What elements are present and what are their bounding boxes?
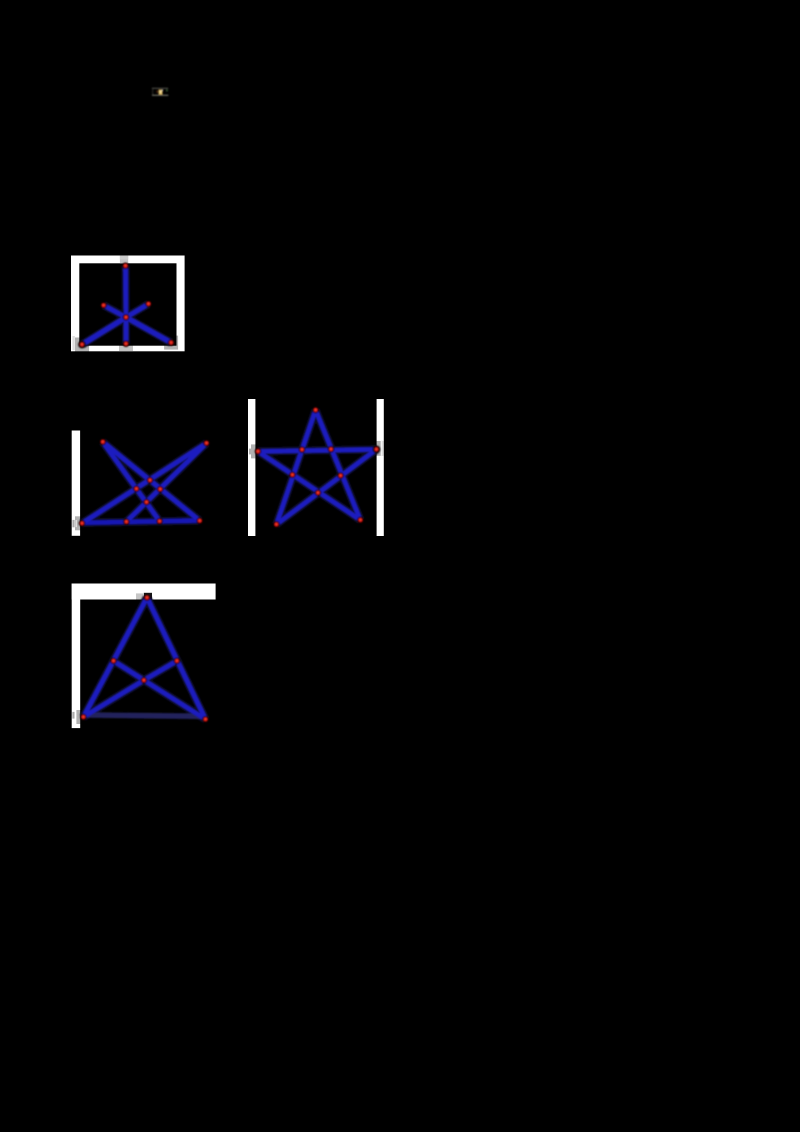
fig3 white column inside right strip: [381, 440, 383, 455]
figure 1: star graph with 6 spokes: [71, 256, 185, 352]
fig1 edge center-top: [123, 266, 128, 317]
fig3 edge left-bottomright: [258, 451, 360, 520]
fig4 edge top-bottomright: [147, 598, 206, 720]
fig1 edge center-upperleft: [104, 305, 126, 317]
fig2 node lower-center: [144, 500, 149, 505]
fig3 white left strip: [248, 399, 255, 536]
fig3 node halo right: [369, 441, 383, 456]
fig1 edge center-bottomleft: [82, 317, 126, 344]
fig4 node mid-left: [111, 658, 116, 663]
fig4 node top: [144, 595, 149, 600]
fig3 edge halo underlay: [258, 410, 376, 524]
fig2 edge topleft-bottommidright: [103, 442, 160, 521]
fig1 node bottom-left: [79, 342, 84, 347]
fig1 node halo bottom-left: [75, 338, 89, 352]
fig1 node bottom-center: [123, 341, 128, 346]
fig1 node upper-left: [101, 303, 106, 308]
fig3 node inner-midleft: [290, 472, 295, 477]
fig1 node upper-right: [146, 301, 151, 306]
fig2 edge halo underlay: [82, 442, 207, 523]
fig4 node bottom-right: [203, 717, 208, 722]
fig3 node left: [255, 449, 260, 454]
fig2 white left strip: [72, 431, 80, 536]
fig1 node halo bottom-center: [119, 337, 133, 351]
fig1 black interior: [79, 263, 176, 345]
fig1 gray stripe on left border near corner: [72, 336, 74, 350]
fig4 edge center-bottomright: [144, 680, 206, 719]
fig3 gray dash extension near left node: [249, 449, 251, 455]
fig4 node center: [141, 678, 146, 683]
fig2 node mid-right: [158, 487, 163, 492]
fig4 white left strip: [72, 584, 81, 729]
fig1 node top: [123, 263, 128, 268]
fig1 edge halo underlay: [82, 266, 171, 345]
fig3 node inner-topleft: [299, 447, 304, 452]
fig1 node halo bottom-right: [164, 336, 178, 350]
figure 3: pentagram graph: [248, 399, 384, 536]
fig2 node halo bottom-left: [75, 516, 89, 530]
fig2 node top-left: [100, 439, 105, 444]
fig4 edge bottom horizontal: [84, 715, 205, 716]
fig2 node bottom-midright: [157, 519, 162, 524]
fig2 node top-right: [204, 441, 209, 446]
fig3 white right strip: [377, 399, 384, 536]
fig1 black blob behind bottom-left node: [78, 341, 86, 349]
fig4 dark square behind top node: [144, 593, 152, 600]
fig4 edge center-midright: [144, 661, 177, 680]
fig4 node mid-right: [174, 658, 179, 663]
fig4 gray patch left of top node: [136, 593, 143, 599]
fig3 edge top-bottomright: [316, 410, 361, 520]
fig3 black blob behind right node: [373, 446, 381, 454]
fig4 node halo bottom-left: [76, 710, 90, 724]
fig3 node inner-midright: [338, 473, 343, 478]
fig1 node center: [123, 315, 128, 320]
fig4 gray dashes near bottom-left node: [72, 712, 74, 719]
fig2 edge topright-bottomleft: [82, 443, 207, 523]
fig3 node right: [374, 447, 379, 452]
fig4 white top strip: [72, 584, 216, 600]
fig3 node bottom-left: [274, 522, 279, 527]
fig4 edge center-bottomleft: [83, 680, 143, 717]
fig4 node bottom-left: [81, 714, 86, 719]
fig2 edge bottom horizontal: [82, 521, 200, 523]
fig3 edge right-bottomleft: [276, 449, 376, 524]
fig4 edge center-midleft: [114, 661, 144, 680]
fig4 edge halo underlay: [83, 598, 205, 720]
fig2 node mid-left: [134, 486, 139, 491]
fig1 node bottom-right: [169, 340, 174, 345]
fig4 edge top-bottomleft: [83, 598, 147, 717]
fig1 edge center-upperright: [126, 304, 149, 317]
broken-image icon: [152, 88, 168, 96]
fig3 node halo left: [251, 444, 265, 458]
fig2 edge topleft-bottomright: [103, 442, 200, 521]
fig2 gray dashes near bottom-left node: [72, 520, 74, 527]
fig3 node inner-topright: [328, 447, 333, 452]
fig3 node inner-bottom: [315, 490, 320, 495]
fig2 node bottom-left: [79, 521, 84, 526]
fig1 edge center-bottomcenter: [124, 317, 129, 343]
fig2 node bottom-right: [197, 518, 202, 523]
fig2 node bottom-midleft: [124, 519, 129, 524]
fig3 edge top-bottomleft: [276, 410, 315, 524]
fig3 edge left-right: [258, 449, 376, 451]
fig2 edge topright-bottommidleft: [126, 443, 206, 522]
fig2 node center: [147, 478, 152, 483]
figure 2: crossing graph: [72, 431, 209, 536]
fig1 gray notch above top node: [120, 256, 128, 264]
fig3 node bottom-right: [358, 517, 363, 522]
figure 4: triangle graph: [72, 584, 216, 729]
fig3 node top: [313, 407, 318, 412]
fig1 white frame: [71, 256, 185, 352]
fig1 edge center-bottomright: [126, 317, 171, 342]
